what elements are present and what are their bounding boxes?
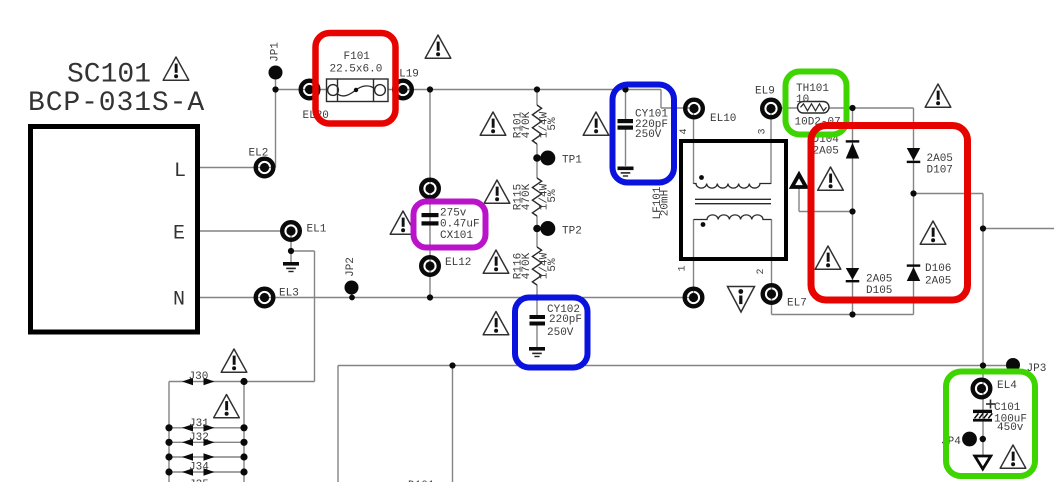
svg-text:J30: J30 — [189, 371, 209, 383]
svg-text:2A05: 2A05 — [866, 274, 892, 286]
svg-text:1: 1 — [678, 265, 689, 271]
svg-text:2A05: 2A05 — [927, 153, 953, 165]
svg-text:EL4: EL4 — [997, 380, 1017, 392]
svg-text:D105: D105 — [866, 285, 892, 297]
svg-text:SC101: SC101 — [67, 60, 151, 91]
svg-text:4: 4 — [679, 128, 690, 134]
svg-text:2: 2 — [756, 268, 767, 274]
svg-text:3: 3 — [758, 128, 769, 134]
svg-text:450v: 450v — [997, 422, 1024, 434]
svg-text:470K: 470K — [521, 183, 533, 210]
svg-text:22.5x6.0: 22.5x6.0 — [330, 64, 383, 76]
svg-text:470K: 470K — [521, 111, 533, 138]
svg-text:0.47uF: 0.47uF — [440, 219, 480, 231]
svg-text:E: E — [173, 223, 185, 246]
svg-text:EL2: EL2 — [249, 148, 269, 160]
svg-text:10: 10 — [796, 94, 809, 106]
svg-text:D106: D106 — [925, 263, 951, 275]
svg-text:EL3: EL3 — [279, 288, 299, 300]
svg-text:2A05: 2A05 — [813, 146, 839, 158]
svg-text:JP1: JP1 — [270, 42, 282, 62]
svg-text:C101: C101 — [994, 402, 1021, 414]
svg-text:5%: 5% — [547, 258, 559, 272]
svg-text:2A05: 2A05 — [925, 276, 951, 288]
svg-text:L: L — [174, 160, 186, 183]
svg-text:N: N — [173, 289, 185, 312]
svg-text:EL12: EL12 — [445, 257, 471, 269]
svg-text:EL1: EL1 — [307, 224, 327, 236]
svg-text:250V: 250V — [547, 327, 574, 339]
svg-text:TP2: TP2 — [562, 226, 582, 238]
svg-text:D107: D107 — [927, 165, 953, 177]
svg-text:J34: J34 — [189, 462, 209, 474]
svg-text:5%: 5% — [547, 189, 559, 203]
svg-text:J31: J31 — [189, 418, 209, 430]
svg-text:EL9: EL9 — [755, 86, 775, 98]
svg-text:J32: J32 — [189, 432, 209, 444]
svg-text:JP2: JP2 — [345, 257, 357, 277]
svg-text:20mH: 20mH — [660, 190, 672, 216]
svg-text:TP1: TP1 — [562, 155, 582, 167]
svg-text:EL7: EL7 — [787, 298, 807, 310]
svg-text:5%: 5% — [547, 117, 559, 131]
svg-text:EL10: EL10 — [710, 113, 736, 125]
svg-text:F101: F101 — [344, 51, 371, 63]
svg-text:470K: 470K — [521, 252, 533, 279]
svg-text:220pF: 220pF — [549, 314, 582, 326]
svg-text:CX101: CX101 — [440, 230, 473, 242]
svg-text:BCP-031S-A: BCP-031S-A — [28, 88, 205, 119]
svg-text:250V: 250V — [635, 129, 662, 141]
